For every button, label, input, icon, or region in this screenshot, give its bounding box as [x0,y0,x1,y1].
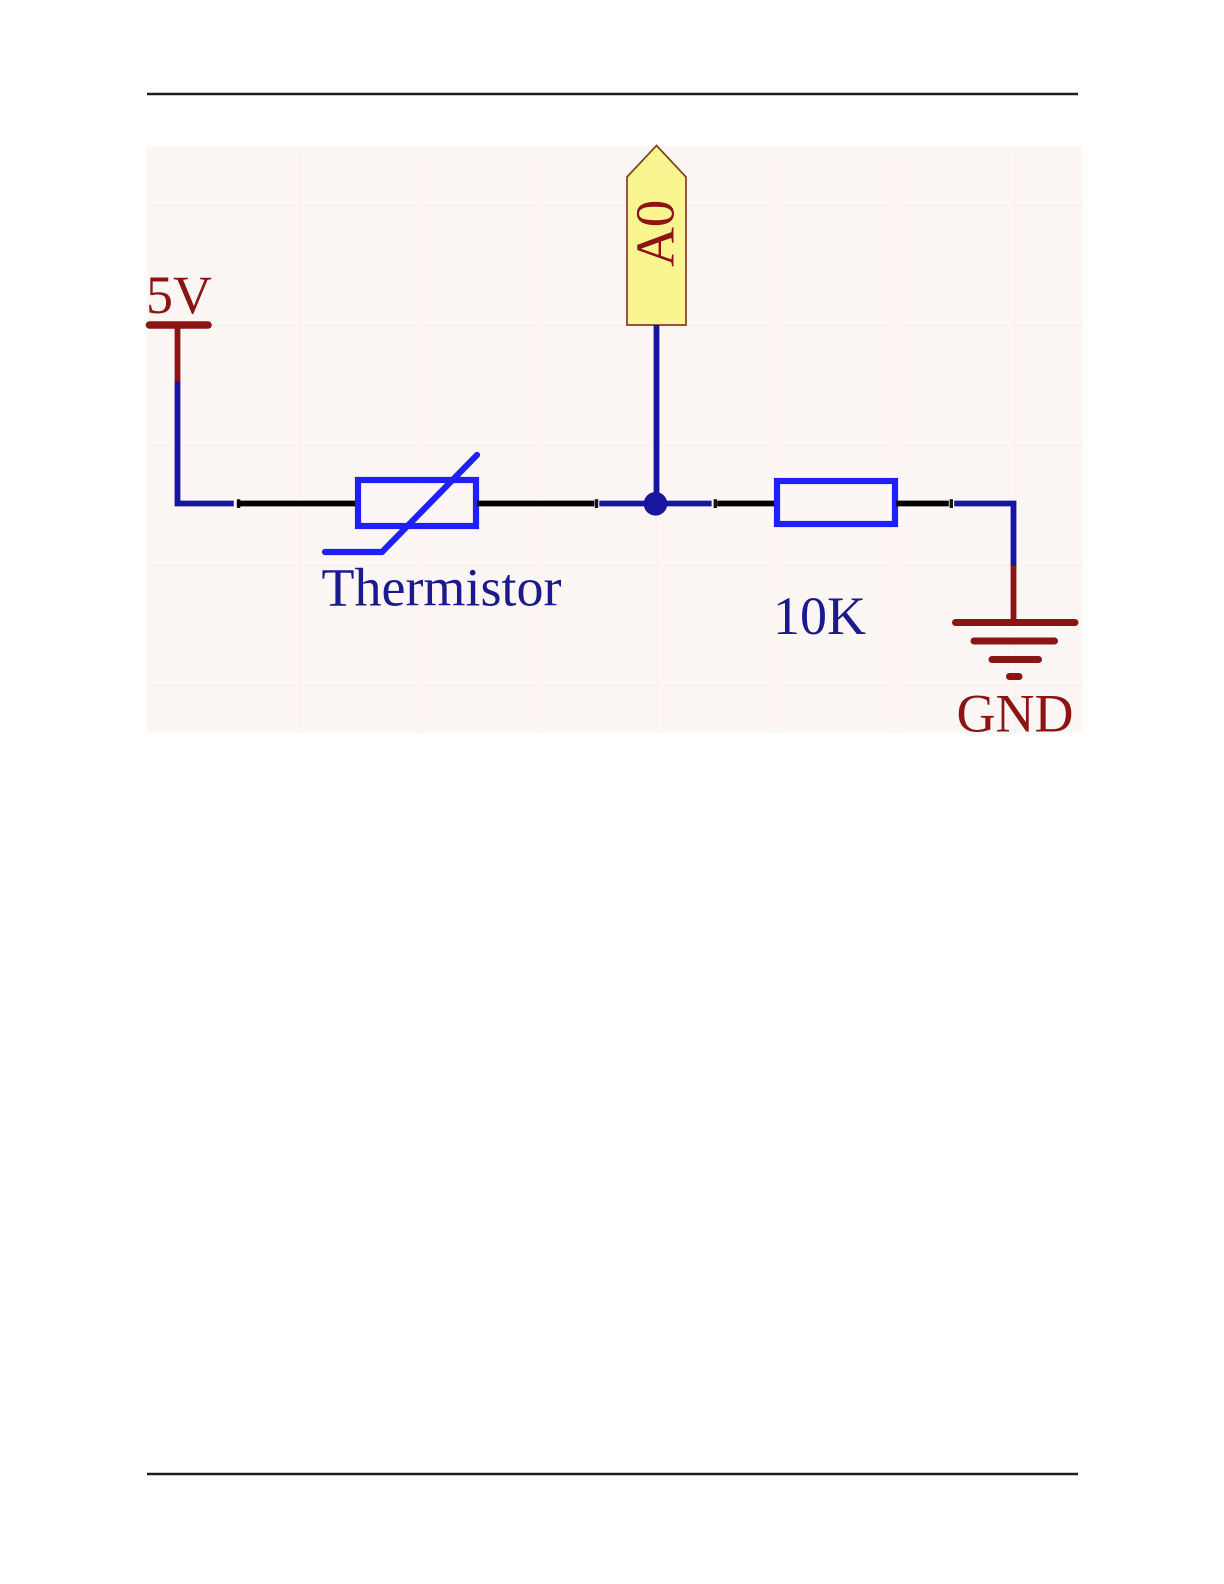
svg-text:A0: A0 [625,200,686,267]
wire from resistor pin right and down to ground [954,504,1013,567]
page top rule [147,93,1078,96]
schematic background [147,146,1082,733]
pin cross marker right of thermistor [595,499,598,508]
label 5V [146,265,212,325]
junction node [644,492,668,516]
svg-text:10K: 10K [773,586,866,646]
power symbol 5V bar [150,325,209,381]
wire from 5V down and right to thermistor pin [178,381,234,504]
ground symbol GND [956,566,1076,677]
pin cross marker left of resistor [714,499,717,508]
value label 10K [773,586,866,646]
net flag A0 [625,146,687,326]
label GND [957,684,1074,744]
wire from A0 flag down to junction [654,325,660,503]
thermistor right pin wire [477,501,594,507]
svg-text:5V: 5V [146,265,212,325]
thermistor left pin wire [237,501,357,507]
svg-text:Thermistor: Thermistor [322,558,562,618]
wire from junction to resistor pin [655,501,712,507]
page bottom rule [147,1473,1078,1476]
svg-text:GND: GND [957,684,1074,744]
resistor R1 body [777,481,895,524]
pin cross marker left of thermistor [237,499,240,508]
thermistor RT body [325,455,477,552]
label Thermistor [322,558,562,618]
resistor right pin wire [896,501,949,507]
wire from thermistor pin to junction [599,501,656,507]
pin cross marker right of resistor [950,499,953,508]
resistor left pin wire [717,501,776,507]
